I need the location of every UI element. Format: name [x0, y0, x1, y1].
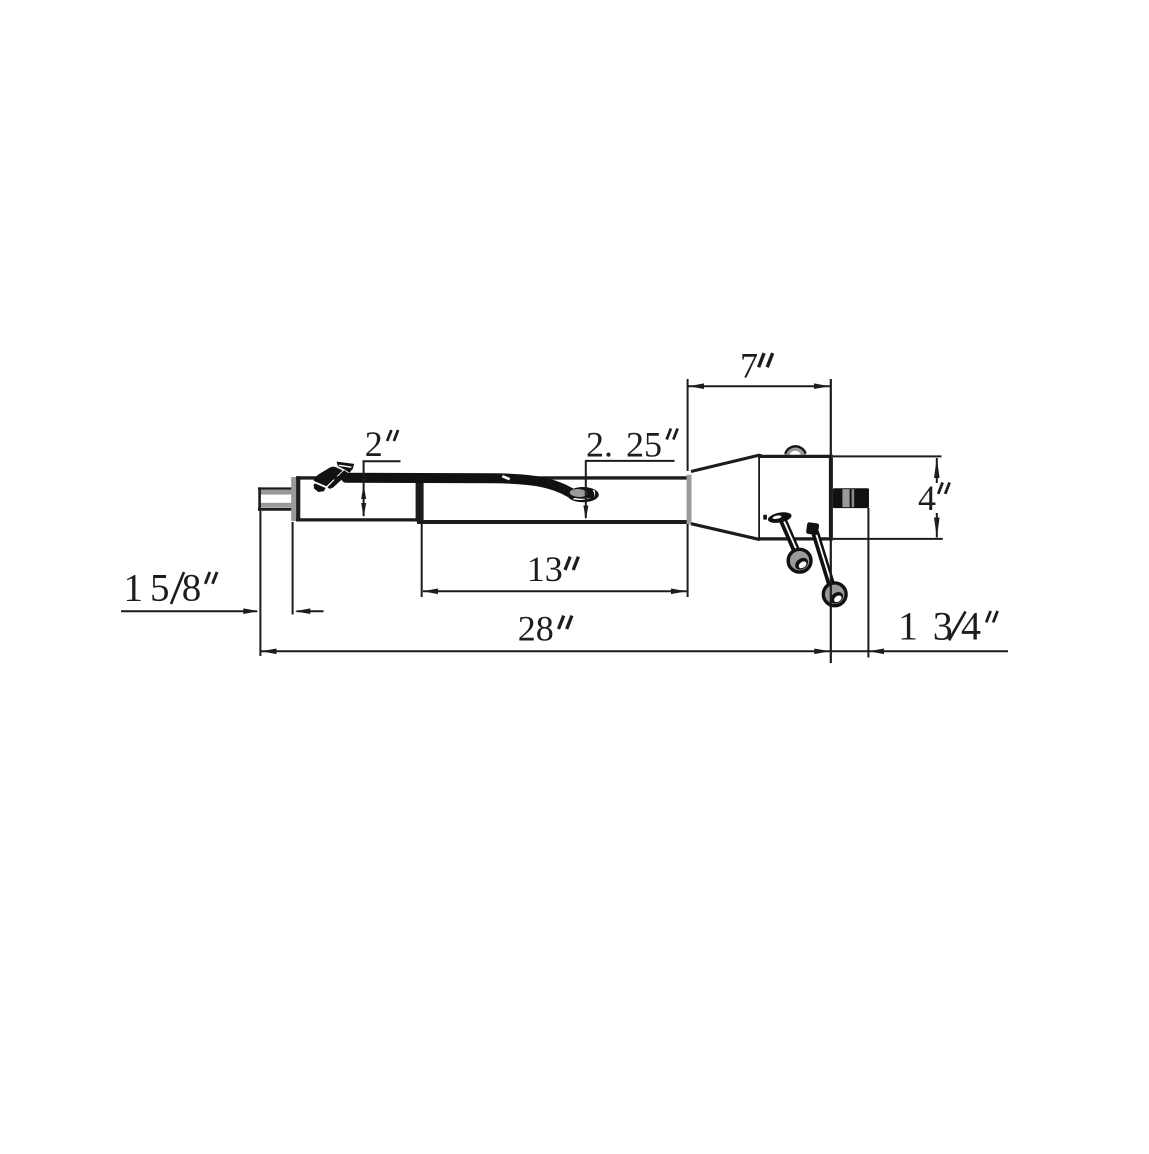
svg-text:1: 1 [898, 604, 918, 649]
svg-text:4: 4 [918, 478, 936, 518]
svg-text:4: 4 [961, 604, 981, 649]
svg-text:5: 5 [150, 567, 170, 610]
svg-text:7: 7 [740, 346, 758, 386]
svg-text:2: 2 [365, 424, 383, 464]
svg-text:3: 3 [933, 604, 953, 649]
svg-text:13: 13 [527, 549, 563, 589]
svg-text:1: 1 [124, 567, 144, 610]
svg-text:28: 28 [518, 609, 554, 649]
